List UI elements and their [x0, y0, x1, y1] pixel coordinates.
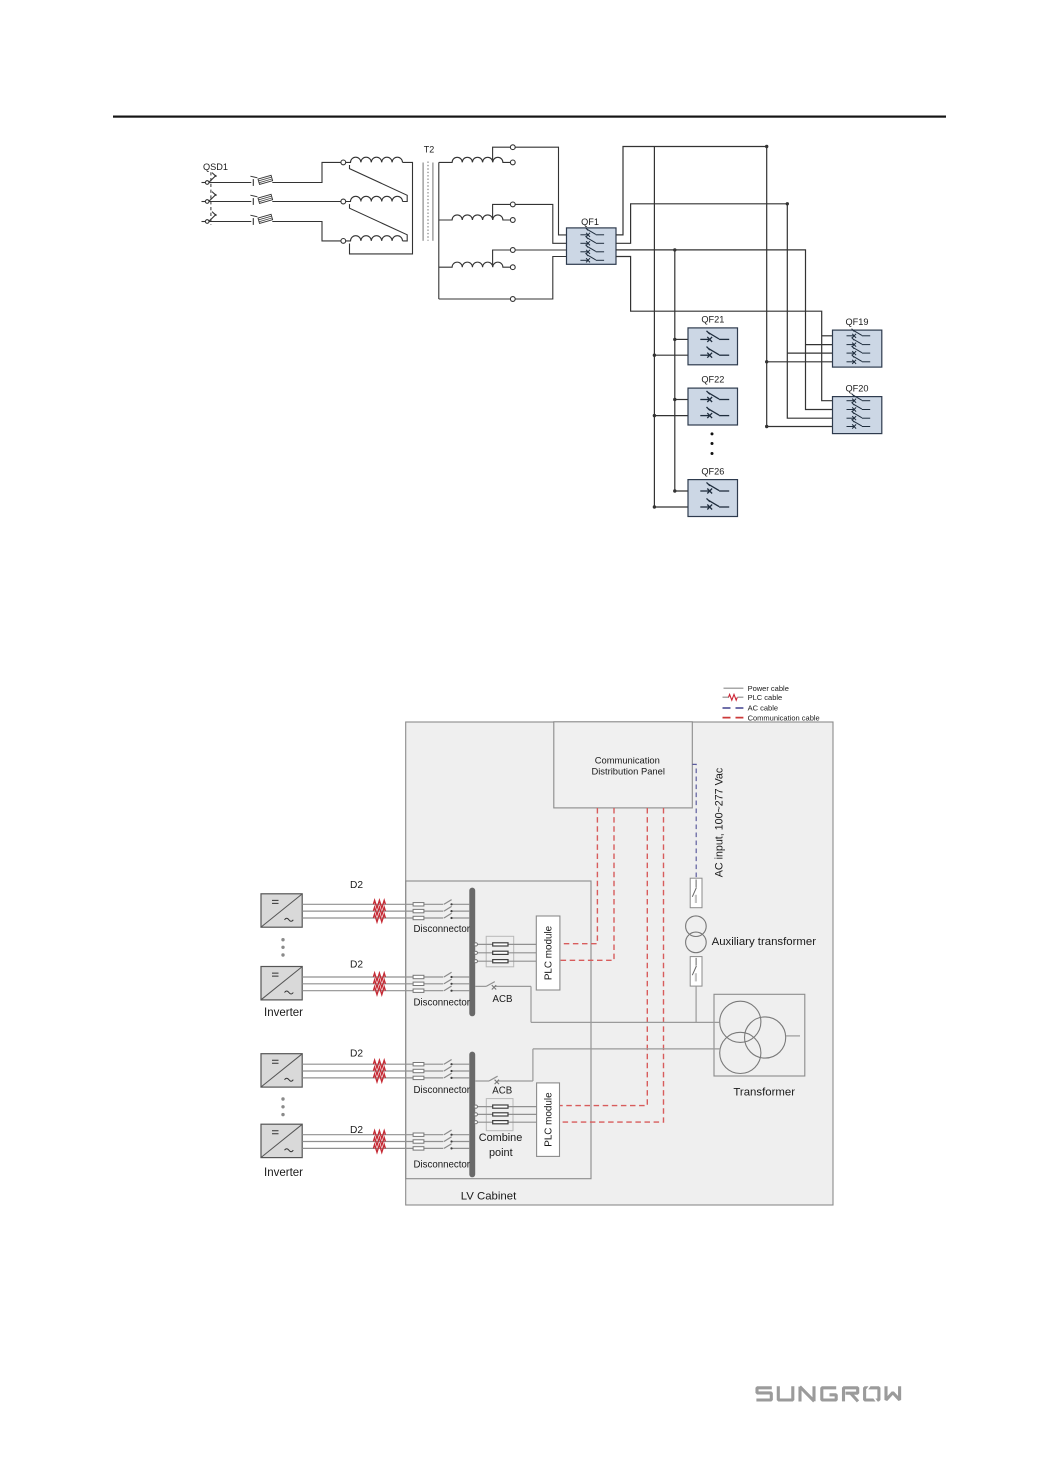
PLC module 2	[537, 1083, 560, 1157]
svg-text:ACB: ACB	[493, 994, 513, 1005]
disconnector blade row 3 line 1	[444, 1060, 452, 1065]
wire branch to QF19 pin2	[806, 344, 833, 346]
transformer T2 secondary end terminal 3	[510, 265, 515, 270]
wire neutral to QF1 pin4	[515, 257, 566, 300]
communication distribution panel	[554, 722, 693, 808]
svg-text:QF26: QF26	[701, 466, 724, 476]
disconnector blade row 1 line 1	[444, 900, 452, 905]
svg-text:QF19: QF19	[846, 317, 869, 327]
disconnector QSD1 pole 1	[202, 173, 252, 185]
header rule	[113, 116, 946, 118]
disconnector fuse body row 4 line 2	[413, 1140, 424, 1143]
wire tap1 to QF1 pin1	[515, 147, 566, 235]
disconnector QSD1 linkage (dashed)	[210, 172, 212, 225]
transformer T2 primary coil 3	[346, 236, 403, 241]
wire branch to QF19 pin1	[822, 335, 833, 337]
wire inverter 3 phase 1 to disconnector	[302, 1063, 469, 1065]
disconnector fuse body row 2 line 3	[413, 989, 424, 992]
PLC choke mark row 2 line 1	[373, 973, 385, 981]
combine point group 2	[474, 1099, 536, 1131]
disconnector fuse body row 4 line 3	[413, 1147, 424, 1150]
node junction (674.8,399.5)	[673, 398, 676, 401]
disconnector blade row 2 line 1	[444, 972, 452, 977]
communication cable panel to PLC module 1 line B	[560, 808, 614, 960]
node junction (766.7,426.5)	[765, 425, 768, 428]
MV station outer enclosure	[406, 722, 833, 1205]
busbar group 1	[469, 888, 475, 1017]
transformer T2 primary coil 2	[346, 196, 403, 201]
disconnector fuse body row 3 line 2	[413, 1069, 424, 1072]
disconnector blade row 4 line 2	[444, 1137, 452, 1142]
node junction (787.3,203.8)	[786, 202, 789, 205]
transformer windings	[720, 1001, 786, 1073]
transformer T2 primary terminal 2	[341, 199, 346, 204]
node ellipsis dots between QF22 and QF26	[711, 432, 714, 455]
ACB 2 breaker and wire to transformer	[475, 1049, 720, 1084]
svg-text:Combine: Combine	[479, 1132, 523, 1144]
circuit breaker QF22	[688, 388, 738, 425]
node junction (766.7,146.5)	[765, 145, 768, 148]
wire branch to QF21 pin2	[654, 354, 688, 356]
transformer T2 secondary tap terminal 2	[510, 202, 515, 207]
disconnector fuse body row 3 line 3	[413, 1076, 424, 1079]
wire transformer HV stub	[786, 1035, 800, 1037]
transformer T2 primary terminal 1	[341, 160, 346, 165]
node junction (654.4,415.6)	[653, 414, 656, 417]
wire QSD1 pole1 to T2 primary coil1	[272, 162, 341, 182]
node junction (674.8,491)	[673, 489, 676, 492]
svg-text:QF21: QF21	[701, 315, 724, 325]
svg-text:PLC module: PLC module	[544, 925, 555, 980]
svg-text:PLC cable: PLC cable	[748, 693, 783, 702]
svg-text:Disconnector: Disconnector	[414, 1085, 471, 1096]
wire delta link coil1-right to coil3 (right vertical and bottom)	[350, 162, 413, 254]
transformer T2 primary terminal 3	[341, 239, 346, 244]
wire vertical bus to QF21/QF22/QF26 pin1	[675, 250, 688, 491]
PLC choke mark row 3 line 1	[373, 1060, 385, 1068]
transformer T2 neutral terminal	[510, 297, 515, 302]
wire branch to QF22 pin1	[675, 399, 688, 401]
ACB 1 breaker and wire to transformer	[475, 982, 720, 1023]
transformer T2 secondary end terminal 2	[510, 218, 515, 223]
svg-text:QF1: QF1	[581, 217, 599, 227]
disconnector fuse body row 2 line 1	[413, 975, 424, 978]
wire inverter 3 phase 3 to disconnector	[302, 1077, 469, 1079]
disconnector blade row 1 line 3	[444, 913, 452, 918]
ellipsis dots inverter group 1	[281, 938, 284, 957]
svg-text:D2: D2	[350, 960, 363, 971]
wire inverter 1 phase 2 to disconnector	[302, 910, 469, 912]
wire inverter 4 phase 3 to disconnector	[302, 1147, 469, 1149]
svg-text:Disconnector: Disconnector	[414, 1160, 471, 1171]
disconnector fuse body row 2 line 2	[413, 982, 424, 985]
legend communication cable	[723, 713, 820, 722]
wire delta diagonal coil1-left to coil2-right	[350, 165, 408, 202]
svg-text:Transformer: Transformer	[733, 1086, 795, 1098]
legend AC cable	[723, 704, 779, 713]
SUNGROW logo	[756, 1386, 899, 1401]
disconnector QSD1 pole 3	[202, 212, 252, 224]
svg-text:Communication: Communication	[595, 755, 660, 766]
legend PLC cable	[723, 693, 783, 702]
disconnector QSD1 pole 2	[202, 192, 252, 204]
transformer T2 core	[423, 162, 433, 241]
disconnector fuse body row 1 line 1	[413, 903, 424, 906]
disconnector fuse body row 1 line 2	[413, 909, 424, 912]
circuit breaker QF26	[688, 480, 738, 517]
svg-text:AC input, 100~277 Vac: AC input, 100~277 Vac	[713, 767, 725, 877]
auxiliary transformer	[686, 916, 707, 953]
wire inverter 4 phase 2 to disconnector	[302, 1141, 469, 1143]
PLC choke mark row 1 line 3	[373, 914, 385, 922]
wire delta diagonal coil2-left to coil3-right	[350, 204, 408, 241]
svg-text:AC cable: AC cable	[748, 704, 778, 713]
PLC module 1	[536, 916, 560, 990]
node junction (766.7,361.8)	[765, 360, 768, 363]
inverter 4	[261, 1124, 302, 1157]
PLC choke mark row 1 line 2	[373, 907, 385, 915]
wire tap2 to QF1 pin2	[515, 204, 566, 243]
wire inverter 3 phase 2 to disconnector	[302, 1070, 469, 1072]
circuit breaker QF21	[688, 328, 738, 365]
transformer T2 secondary tap 3	[493, 250, 511, 267]
PLC choke mark row 2 line 2	[373, 980, 385, 988]
svg-text:PLC module: PLC module	[544, 1092, 555, 1147]
wire vertical bus to QF21/QF22/QF26 pin2	[654, 147, 688, 508]
node junction (674.8,249.9)	[673, 248, 676, 251]
fuse F3	[250, 214, 272, 225]
wire T2 secondary common bus	[438, 162, 440, 299]
wire branch to QF22 pin2	[654, 415, 688, 417]
disconnector blade row 4 line 1	[444, 1130, 452, 1135]
svg-text:Inverter: Inverter	[264, 1007, 303, 1019]
circuit breaker QF20	[833, 394, 882, 434]
wire branch to QF19 pin3	[787, 352, 832, 354]
AC cable panel to auxiliary breaker	[692, 764, 696, 878]
svg-text:Disconnector: Disconnector	[414, 997, 471, 1008]
PLC choke mark row 4 line 3	[373, 1145, 385, 1153]
combine point group 1	[474, 936, 536, 967]
transformer T2 secondary coil 2	[439, 215, 511, 220]
wire QF1 pin4 net to QF20 pin1	[616, 257, 833, 401]
inverter 2	[261, 967, 302, 1000]
wire QF1 pin2 net to QF19/QF20 pin3	[616, 204, 833, 418]
wire QF1 pin1 net (top bus) to QF19/QF20 pin4	[616, 147, 833, 427]
wire inverter 1 phase 1 to disconnector	[302, 903, 469, 905]
transformer T2 secondary tap terminal 3	[510, 248, 515, 253]
wire inverter 1 phase 3 to disconnector	[302, 917, 469, 919]
transformer T2 secondary coil 3	[439, 262, 511, 267]
PLC choke mark row 1 line 1	[373, 900, 385, 908]
disconnector fuse body row 4 line 1	[413, 1133, 424, 1136]
wire inverter 4 phase 1 to disconnector	[302, 1134, 469, 1136]
fuse F2	[250, 194, 272, 205]
wire QSD1 pole2 to T2 primary coil2	[272, 201, 341, 203]
svg-text:QF20: QF20	[846, 383, 869, 393]
wire QF1 pin3 net to QF20 pin2	[616, 250, 833, 410]
LV cabinet enclosure	[406, 881, 591, 1179]
transformer T2 secondary tap 2	[493, 204, 511, 219]
svg-text:Disconnector: Disconnector	[414, 924, 471, 935]
inverter 1	[261, 894, 302, 927]
node junction (674.8,339.4)	[673, 338, 676, 341]
wire QSD1 pole3 to T2 primary coil3	[272, 222, 341, 241]
transformer T2 primary coil 1	[346, 157, 403, 162]
svg-text:QF22: QF22	[701, 375, 724, 385]
transformer T2 secondary coil 1	[439, 157, 511, 162]
svg-text:D2: D2	[350, 880, 363, 891]
PLC choke mark row 3 line 3	[373, 1074, 385, 1082]
node junction (654.4,355.2)	[653, 354, 656, 357]
wire T2 neutral bottom	[439, 298, 511, 300]
disconnector blade row 3 line 3	[444, 1073, 452, 1078]
wire inverter 2 phase 2 to disconnector	[302, 983, 469, 985]
transformer T2 secondary tap 1	[493, 147, 511, 162]
busbar group 2	[469, 1052, 475, 1178]
communication cable panel to PLC module 1 line A	[560, 808, 597, 944]
transformer enclosure	[714, 994, 805, 1076]
PLC choke mark row 2 line 3	[373, 987, 385, 995]
node junction (654.4,507)	[653, 505, 656, 508]
svg-text:Power cable: Power cable	[748, 684, 789, 693]
wire inverter 2 phase 1 to disconnector	[302, 976, 469, 978]
wire inverter 2 phase 3 to disconnector	[302, 990, 469, 992]
circuit breaker QF1	[567, 228, 617, 265]
svg-text:LV Cabinet: LV Cabinet	[461, 1191, 517, 1203]
communication cable panel to PLC module 2 line A	[560, 808, 648, 1106]
svg-text:Auxiliary transformer: Auxiliary transformer	[712, 936, 817, 948]
svg-text:Inverter: Inverter	[264, 1167, 303, 1179]
wire auxiliary chain to main power line	[695, 986, 697, 1022]
legend power cable	[724, 684, 789, 693]
disconnector blade row 4 line 3	[444, 1144, 452, 1149]
disconnector fuse body row 1 line 3	[413, 916, 424, 919]
wire branch to QF21 pin1	[675, 338, 688, 340]
svg-text:QSD1: QSD1	[203, 162, 228, 172]
ellipsis dots inverter group 2	[281, 1097, 284, 1116]
breaker above auxiliary transformer	[690, 878, 702, 908]
svg-text:Distribution Panel: Distribution Panel	[591, 766, 664, 777]
svg-text:T2: T2	[424, 145, 435, 155]
fuse F1	[250, 175, 272, 186]
disconnector fuse body row 3 line 1	[413, 1063, 424, 1066]
svg-text:Communication cable: Communication cable	[748, 713, 820, 722]
PLC choke mark row 3 line 2	[373, 1067, 385, 1075]
PLC choke mark row 4 line 1	[373, 1131, 385, 1139]
transformer T2 secondary tap terminal 1	[510, 145, 515, 150]
disconnector blade row 3 line 2	[444, 1066, 452, 1071]
disconnector blade row 1 line 2	[444, 906, 452, 911]
wire branch to QF19 pin4	[767, 361, 833, 363]
svg-text:point: point	[489, 1147, 513, 1159]
transformer T2 secondary end terminal 1	[510, 160, 515, 165]
svg-text:D2: D2	[350, 1049, 363, 1060]
svg-text:ACB: ACB	[492, 1086, 512, 1097]
disconnector blade row 2 line 3	[444, 986, 452, 991]
inverter 3	[261, 1054, 302, 1087]
circuit breaker QF19	[833, 329, 882, 367]
wire tap3 to QF1 pin3	[515, 249, 566, 251]
breaker below auxiliary transformer	[690, 957, 702, 987]
disconnector blade row 2 line 2	[444, 979, 452, 984]
PLC choke mark row 4 line 2	[373, 1138, 385, 1146]
communication cable panel to PLC module 2 line B	[560, 808, 664, 1122]
